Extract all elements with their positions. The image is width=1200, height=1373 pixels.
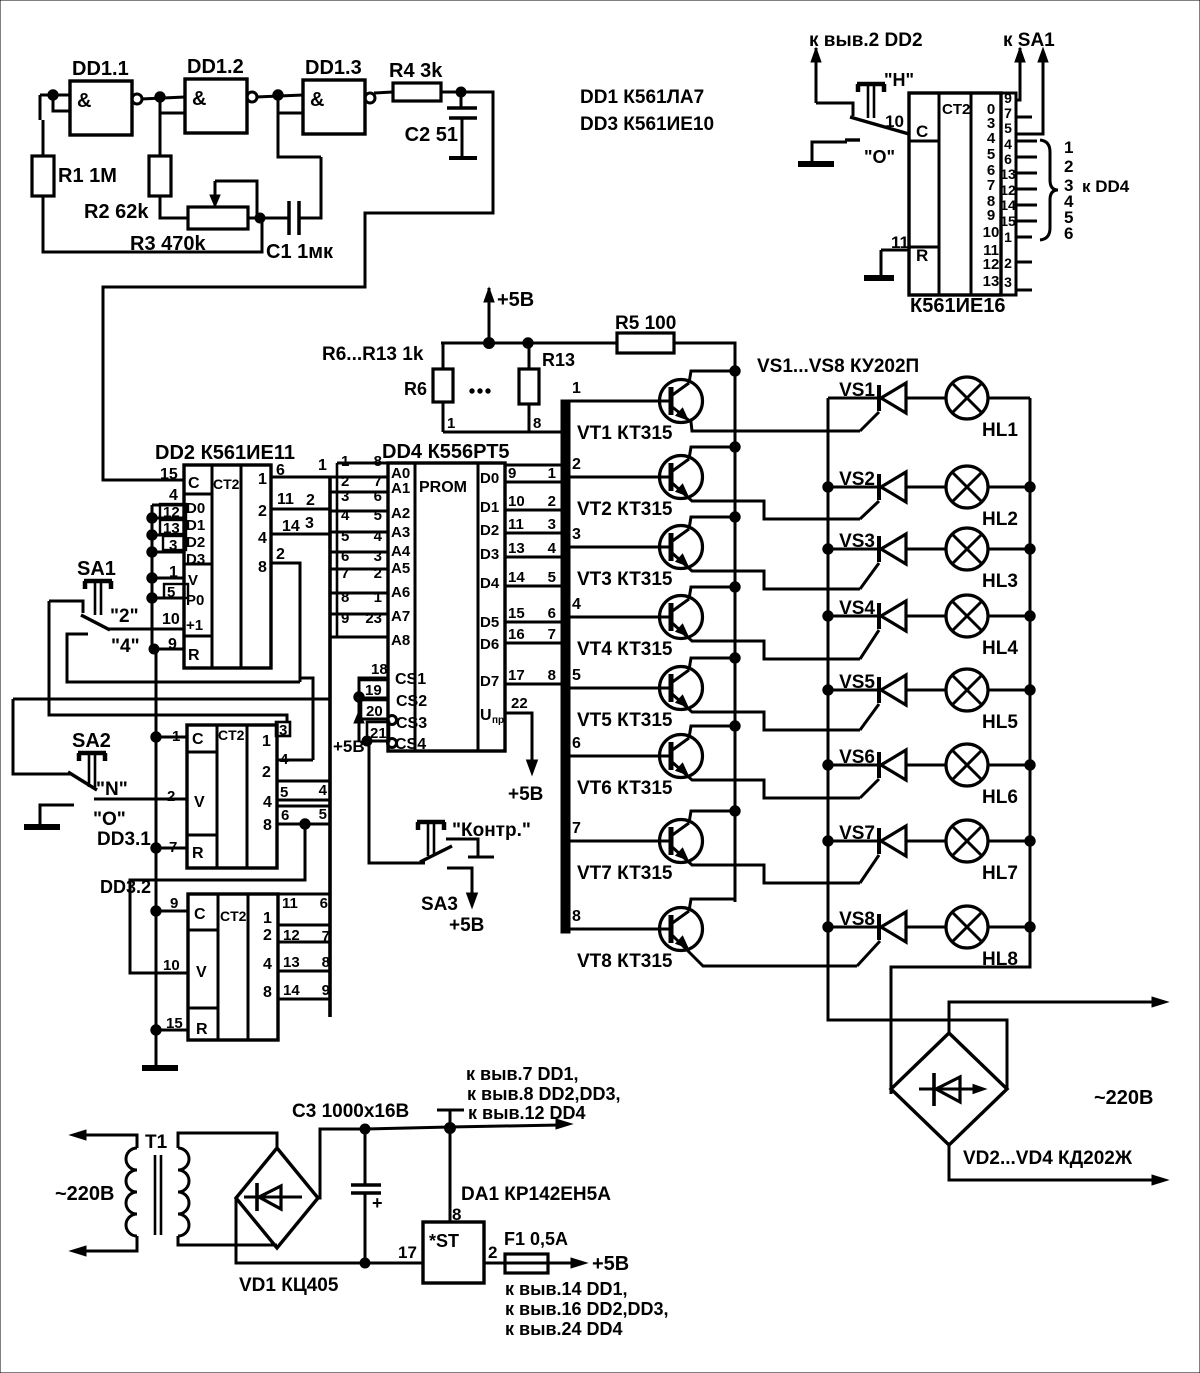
svg-text:8: 8 [533,415,541,432]
lamp HL5 [946,669,988,711]
VT2 emitter wire [671,482,860,519]
label DD3.2 [100,877,151,897]
svg-text:CT2: CT2 [213,476,240,492]
wire to SA1 (pin 5) [1016,48,1048,134]
switch SA2 label [72,730,111,752]
svg-text:A3: A3 [391,524,410,541]
junction [300,819,310,829]
svg-text:HL7: HL7 [982,863,1018,884]
SA2 contact O [40,805,74,824]
arrow [70,1130,86,1140]
ladder left numbers [341,453,350,627]
thyristor anode bus [827,398,830,927]
svg-text:1: 1 [318,457,327,474]
svg-text:DD3.1: DD3.1 [97,829,151,850]
svg-text:+5В: +5В [333,737,365,756]
svg-text:DD1 К561ЛА7: DD1 К561ЛА7 [580,87,704,108]
svg-text:C: C [194,906,206,923]
svg-text:7: 7 [572,820,581,837]
wire R pin 11 [881,233,909,252]
junction +5V node [362,736,372,746]
DD4 A labels [391,465,411,649]
wire [528,343,531,369]
DD2 out4 wire [271,518,330,535]
arrow on CS rail [354,711,364,741]
ladder wire A2 [330,510,388,513]
junction [354,692,364,702]
pushbutton switch SA3 [417,822,445,856]
T1 secondary bottom lead [178,1236,277,1245]
svg-text:SA3: SA3 [421,894,458,915]
label HL3 [982,571,1018,592]
VT4 emitter wire [671,622,860,659]
wire [40,95,43,156]
DD2 pin R wire [152,648,184,651]
svg-text:D5: D5 [480,614,499,631]
resistor R1 [32,156,117,196]
svg-text:5: 5 [319,806,327,823]
label HL6 [982,787,1018,808]
SA2 arm [68,772,97,790]
svg-text:4: 4 [280,751,289,768]
junction [1025,544,1035,554]
transistor VT4 base wire [570,616,671,619]
junction [1025,611,1035,621]
VS7 cathode wire [828,840,879,843]
label HL7 [982,863,1018,884]
DD5 pin strip [1000,90,1016,295]
svg-text:6: 6 [374,488,382,505]
label DD1 type [580,87,704,108]
svg-text:A7: A7 [391,608,410,625]
transistor VT5 [660,667,703,710]
svg-text:9: 9 [1004,90,1012,106]
VS4 cathode wire [828,615,879,618]
IC DA1 body [423,1222,484,1283]
svg-text:C2 51: C2 51 [405,124,458,146]
svg-text:10: 10 [162,611,180,628]
svg-text:1: 1 [341,453,349,470]
wire [374,92,393,93]
transistor VT2 [660,456,703,499]
svg-text:3: 3 [341,488,349,505]
ground [24,824,60,830]
svg-text:17: 17 [398,1243,417,1262]
thyristor VS2 [879,472,906,502]
thyristor VS7 [879,826,906,856]
svg-text:к выв.16 DD2,DD3,: к выв.16 DD2,DD3, [505,1299,669,1319]
label 10 [885,112,904,131]
wire [528,404,531,432]
VS1 gate wire [860,412,879,431]
svg-text:VD2...VD4 КД202Ж: VD2...VD4 КД202Ж [963,1148,1133,1169]
svg-text:SA2: SA2 [72,730,111,752]
VT4 collector wire [689,587,735,599]
svg-text:6: 6 [1004,151,1012,167]
wire [299,217,300,220]
label HL8 [982,949,1018,970]
ground [798,161,834,167]
wire number 3 [305,515,314,532]
HL1 wire [988,397,1030,400]
DD3.2 pin numbers [163,895,183,1032]
junction [823,922,833,932]
HL8 wire [988,926,1030,929]
thyristor VS4 [879,601,906,631]
node A junction [48,90,58,100]
wire [300,157,321,218]
wire pin17 [365,1243,423,1263]
transistor VT1 base wire [570,400,671,403]
junction [823,760,833,770]
svg-text:23: 23 [365,610,382,627]
junction DD3.1 R [151,843,161,853]
wire number 2 [572,456,581,473]
wire [43,196,262,252]
wire to SA3 [369,741,425,863]
label DD3.1 [97,829,151,850]
svg-text:4: 4 [263,794,272,811]
node E junction [456,87,466,97]
label VT8 [577,951,673,972]
svg-text:D2: D2 [480,522,499,539]
svg-text:1: 1 [548,465,556,482]
svg-text:R3 470k: R3 470k [130,233,206,255]
SA1 common wire [49,601,83,613]
svg-text:R5 100: R5 100 [615,313,676,334]
label VS2 [839,469,875,490]
ladder wire A7 [330,613,388,616]
svg-text:16: 16 [508,626,525,643]
junction [823,685,833,695]
svg-text:4: 4 [987,130,996,147]
svg-text:C1 1мк: C1 1мк [266,241,334,263]
svg-text:3: 3 [279,722,287,739]
lamp HL1 [946,377,988,419]
VS6 gate wire [860,779,879,798]
transistor VT4 [660,596,703,639]
label HL1 [982,420,1018,441]
junction DD3.2 R [151,1025,161,1035]
wire [949,1002,1158,1033]
svg-text:С3 1000х16В: С3 1000х16В [292,1101,409,1122]
IC DD4 name [382,441,510,463]
svg-text:CS2: CS2 [396,693,427,710]
svg-text:20: 20 [366,703,383,720]
svg-text:VD1 КЦ405: VD1 КЦ405 [239,1275,339,1296]
svg-text:F1 0,5А: F1 0,5А [504,1229,568,1249]
transistor VT7 [660,820,703,863]
+5V rail [441,342,617,345]
VS7 gate wire [860,855,879,883]
ground [142,1065,178,1071]
svg-text:DD1.1: DD1.1 [72,58,129,80]
junction [730,582,740,592]
transistor VT5 base wire [570,687,671,690]
wire DC- [236,1198,365,1263]
pushbutton switch Н [857,70,914,118]
transistor VT2 base wire [570,476,671,479]
svg-text:6: 6 [572,735,581,752]
T1 primary top lead [79,1135,137,1148]
DD5 pin stub [1016,289,1032,292]
transistor VT3 base wire [570,546,671,549]
VS6 anode wire [906,764,946,767]
thyristor VS8 [879,912,906,942]
VS1 anode wire [906,397,946,400]
transistor VT3 [660,526,703,569]
DD2 pin C wire [103,479,184,482]
DD4 CS3 wire + pin20 box [361,700,388,720]
DD4 CS labels [395,671,427,753]
label VS1...VS8 [757,356,919,377]
DD2 pin V wire [152,577,184,580]
VT3 emitter wire [671,552,860,589]
svg-text:+5В: +5В [449,915,484,936]
wire [256,95,303,97]
svg-text:3: 3 [305,515,314,532]
DD5 bus wires to DD4 [1016,141,1037,221]
svg-text:9: 9 [987,207,995,224]
svg-text:5: 5 [1004,120,1012,136]
wire [441,91,461,94]
svg-text:HL4: HL4 [982,638,1018,659]
DD4 D1 wire [505,509,567,512]
svg-text:+5В: +5В [592,1253,629,1275]
DD3.2 pin C wire [156,910,188,913]
label HL2 [982,509,1018,530]
wire [260,217,289,220]
SA1 contact 4 label [111,636,140,657]
DD4 D5 wire [505,621,567,624]
svg-text:HL6: HL6 [982,787,1018,808]
svg-text:6: 6 [281,807,289,824]
svg-text:6: 6 [1064,224,1073,243]
svg-text:2: 2 [1064,157,1073,176]
svg-text:"2": "2" [110,606,139,627]
VS2 gate wire [860,501,879,519]
VD2 diode symbol [919,1073,986,1106]
svg-text:V: V [196,964,207,981]
HL3 wire [988,548,1030,551]
svg-text:VT3 КТ315: VT3 КТ315 [577,569,673,590]
svg-text:R2 62k: R2 62k [84,201,149,223]
switch SA1 label [77,558,116,580]
DD2 out2 wire [271,491,330,509]
svg-text:+5В: +5В [497,289,534,311]
label VT6 [577,778,673,799]
svg-text:2: 2 [488,1243,497,1262]
VT7 collector wire [689,811,735,823]
svg-text:4: 4 [169,487,178,504]
svg-text:D0: D0 [480,470,499,487]
DD2 output labels [258,471,267,576]
DD2 out1 wire [271,462,330,479]
VS4 gate wire [860,630,879,659]
DD4 D2 wire [505,532,567,535]
junction [1025,836,1035,846]
svg-text:17: 17 [508,667,525,684]
label Контр [452,820,531,841]
DD3.1 ladder [277,781,330,824]
DD4 PROM label [419,479,467,496]
DD3.1 output labels [262,733,272,834]
svg-text:3: 3 [548,516,556,533]
VS2 anode wire [906,486,946,489]
wire number 7 [572,820,581,837]
DD2 pin P0 wire [152,597,184,600]
SA1 contact 4 [67,634,88,648]
pushbutton switch SA1 [84,581,112,615]
svg-text:13: 13 [983,273,1000,290]
DD3.2 ladder [278,894,330,999]
svg-text:4: 4 [319,782,328,799]
svg-text:D7: D7 [480,673,499,690]
wire number 3 [572,526,581,543]
svg-text:CT2: CT2 [220,908,247,924]
svg-text:VT7 КТ315: VT7 КТ315 [577,863,673,884]
NAND gate DD1.3 [303,57,375,134]
svg-text:A4: A4 [391,543,411,560]
ladder wire A5 [330,568,388,571]
ellipsis dots [470,389,490,393]
arrow [1152,997,1168,1007]
DD4 CS1 wire [359,678,388,740]
resistor R4 [389,60,443,101]
VT5 collector wire [689,658,735,670]
switch Н arm [850,117,909,134]
svg-text:5: 5 [548,569,556,586]
HL5 wire [988,689,1030,692]
ladder wire A6 [330,592,388,595]
label VT7 [577,863,673,884]
junction [360,1258,370,1268]
arrow [70,1246,86,1256]
svg-text:DD2 К561ИЕ11: DD2 К561ИЕ11 [155,442,295,464]
tap to text [437,1110,464,1127]
VD1 diode symbol [244,1183,302,1211]
label T1 [145,1132,168,1153]
svg-text:4: 4 [258,530,267,547]
svg-text:R6...R13 1k: R6...R13 1k [322,344,424,365]
VT2 collector wire [689,447,735,459]
DD2 input labels [186,475,205,664]
VS5 cathode wire [828,689,879,692]
SA3 contact a [446,839,494,857]
VS3 anode wire [906,548,946,551]
DD4 CS3 bubble [388,716,397,725]
label +5V [497,289,534,311]
wire number 1 [572,380,581,397]
junction [823,836,833,846]
svg-text:8: 8 [263,817,272,834]
svg-text:пр: пр [492,715,504,726]
svg-text:14: 14 [283,982,300,999]
label VT2 [577,499,673,520]
svg-text:13: 13 [508,540,525,557]
label VS6 [839,747,875,768]
junction [147,547,157,557]
DD3.1 out pin3 box [276,722,290,739]
VT7 emitter wire [671,846,860,883]
ladder wire A1 [330,491,388,494]
VT6 collector wire [689,726,735,738]
svg-text:к выв.2 DD2: к выв.2 DD2 [809,30,923,51]
lamp HL6 [946,744,988,786]
DD2 pin D1 wire [152,517,184,520]
svg-text:V: V [188,572,198,589]
VS5 anode wire [906,689,946,692]
svg-text:10: 10 [163,957,180,974]
svg-text:1: 1 [572,380,581,397]
wire [812,142,847,161]
label ~220V [1094,1087,1154,1109]
label VT1 [577,423,673,444]
svg-text:2: 2 [572,456,581,473]
svg-text:4: 4 [572,596,581,613]
junction [823,482,833,492]
svg-text:5: 5 [280,784,288,801]
ground rail [151,505,154,649]
base bundle bar [561,400,570,933]
brace to DD4 [1040,140,1058,240]
svg-text:8: 8 [258,559,267,576]
DA1 label *ST [429,1231,459,1251]
ladder top border [337,462,388,465]
label HL5 [982,712,1018,733]
label pin8 [452,1205,461,1224]
junction [730,653,740,663]
label VS4 [839,598,875,619]
transistor VT8 [660,908,703,951]
svg-text:V: V [194,794,205,811]
ground rail lower [155,649,158,1066]
svg-text:2: 2 [262,764,271,781]
DD5 CT2 label [942,101,970,118]
svg-text:VT1 КТ315: VT1 КТ315 [577,423,673,444]
wire [103,92,493,480]
wire [442,343,445,369]
VS8 cathode wire [828,926,879,929]
svg-text:7: 7 [341,565,349,582]
thyristor VS5 [879,675,906,705]
arrow [1152,1175,1168,1185]
lamp HL3 [946,528,988,570]
bridge rectifier VD1 [236,1148,318,1248]
svg-text:6: 6 [341,548,349,565]
svg-text:11: 11 [508,516,524,533]
lamp HL4 [946,595,988,637]
off-page arrow to DD2 pin 2 [809,30,923,103]
arrow +5V up [484,288,494,343]
svg-text:7: 7 [322,928,330,945]
svg-text:22: 22 [511,695,528,712]
svg-text:11: 11 [277,491,294,508]
wire [248,217,260,220]
svg-text:VT4 КТ315: VT4 КТ315 [577,639,673,660]
svg-text:4: 4 [374,528,383,545]
junction [1025,482,1035,492]
svg-text:8: 8 [572,908,581,925]
svg-text:*ST: *ST [429,1231,459,1251]
junction [147,573,157,583]
svg-text:1: 1 [374,589,382,606]
svg-text:A5: A5 [391,560,410,577]
svg-text:14: 14 [1000,197,1016,213]
svg-text:PROM: PROM [419,479,467,496]
label C3 [292,1101,409,1122]
DD3.2 pin R wire [156,1029,188,1032]
